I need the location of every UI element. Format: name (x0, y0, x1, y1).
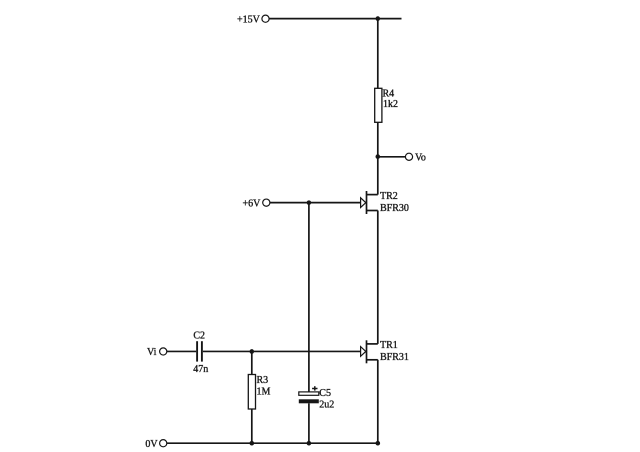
wire +15V junction to R4 top (377, 19, 379, 89)
junction C5 / 0V rail (307, 441, 312, 446)
wire TR2 source to TR1 drain (377, 211, 379, 344)
capacitor C5 (299, 386, 319, 403)
svg-text:1M: 1M (257, 386, 271, 397)
svg-text:R4: R4 (383, 88, 395, 99)
wire R4 bottom to node Vo (377, 122, 379, 156)
svg-text:1k2: 1k2 (383, 99, 398, 110)
svg-text:0V: 0V (145, 439, 158, 450)
svg-text:TR2: TR2 (380, 191, 398, 202)
svg-text:2u2: 2u2 (319, 400, 334, 411)
junction +15V rail / R4 (376, 16, 381, 21)
svg-text:Vo: Vo (415, 153, 426, 164)
terminal Vo (405, 153, 426, 164)
svg-text:TR1: TR1 (380, 340, 398, 351)
svg-text:+6V: +6V (243, 199, 262, 210)
wire node Vo to TR2 drain (377, 157, 379, 195)
junction +6V line / C5 (307, 200, 312, 205)
svg-text:C2: C2 (193, 330, 205, 341)
junction R3 / 0V rail (250, 441, 255, 446)
resistor R3 (248, 375, 255, 410)
wire junction to R3 top (251, 351, 253, 374)
junction node Vo (376, 154, 381, 159)
wire TR1 source to 0V rail (377, 360, 379, 443)
svg-text:R3: R3 (257, 375, 269, 386)
svg-text:C5: C5 (319, 388, 331, 399)
terminal Vi (147, 347, 167, 358)
svg-text:BFR31: BFR31 (380, 352, 409, 363)
junction node R3 top (250, 349, 255, 354)
wire +15V rail (269, 18, 401, 20)
wire junction to C5 top (308, 203, 310, 392)
svg-text:Vi: Vi (147, 347, 157, 358)
transistor TR1 (361, 340, 378, 363)
resistor R4 (375, 88, 382, 122)
wire R3 bottom to 0V rail (251, 409, 253, 443)
junction TR1 / 0V rail (376, 441, 381, 446)
svg-text:+15V: +15V (237, 15, 261, 26)
wire C5 bottom to 0V rail (308, 403, 310, 443)
svg-text:BFR30: BFR30 (380, 203, 409, 214)
svg-text:47n: 47n (193, 364, 208, 375)
transistor TR2 (361, 191, 378, 214)
wire C2 to TR1 gate (203, 350, 361, 352)
wire node Vo to terminal Vo (378, 156, 406, 158)
terminal +6V (243, 199, 270, 210)
terminal +15V (237, 15, 269, 26)
terminal 0V (145, 439, 166, 450)
wire 0V rail (167, 442, 380, 444)
wire +6V to TR2 gate (270, 202, 361, 204)
wire Vi to C2 (167, 350, 196, 352)
capacitor C2 (197, 341, 202, 361)
